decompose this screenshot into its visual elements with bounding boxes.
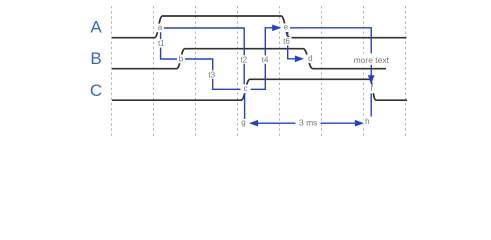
svg-text:t2: t2 (240, 55, 247, 64)
svg-text:h: h (365, 117, 369, 126)
label h (363, 117, 371, 127)
grid of dashed vertical timebase lines (112, 6, 406, 136)
label f (368, 84, 376, 93)
svg-text:a: a (158, 23, 163, 32)
label t4 (260, 55, 270, 64)
label e (282, 23, 290, 32)
svg-text:g: g (241, 118, 245, 127)
svg-text:t4: t4 (262, 55, 269, 64)
label a (156, 23, 164, 32)
label b (177, 54, 185, 63)
wire c to e (t4) with arrowhead (251, 28, 273, 90)
wire a to c (t2) (164, 28, 244, 84)
signal A waveform (112, 16, 407, 38)
label c (242, 84, 250, 93)
svg-text:e: e (284, 23, 289, 32)
wire below f down to h (370, 94, 372, 117)
svg-text:d: d (308, 54, 312, 63)
svg-text:b: b (179, 54, 184, 63)
dimension line 3 ms right arrow (321, 122, 357, 124)
label t6 (282, 37, 292, 46)
dimension line 3 ms left arrow (257, 122, 296, 124)
svg-text:more text: more text (354, 55, 390, 65)
svg-text:t1: t1 (158, 39, 165, 48)
wire below c down to g (244, 93, 246, 119)
label more text (353, 53, 390, 65)
svg-text:C: C (90, 81, 102, 100)
label t3 (207, 70, 217, 79)
label t1 (156, 39, 166, 48)
svg-text:A: A (90, 18, 102, 37)
svg-text:t6: t6 (283, 37, 290, 46)
wire a to b (t1) (161, 31, 178, 60)
svg-text:3 ms: 3 ms (299, 118, 317, 128)
wire b to c (t3) (185, 59, 241, 89)
signal B waveform (112, 49, 386, 69)
svg-text:B: B (90, 49, 101, 68)
wire e to d (t6) with arrowhead (288, 31, 295, 59)
svg-text:c: c (244, 84, 248, 93)
svg-text:t3: t3 (208, 70, 215, 79)
label d (306, 54, 314, 63)
label 3 ms (297, 118, 319, 128)
signal C waveform (112, 79, 407, 100)
label g (240, 118, 248, 128)
wire e to f with down arrowhead (290, 28, 371, 77)
label t2 (239, 55, 249, 64)
